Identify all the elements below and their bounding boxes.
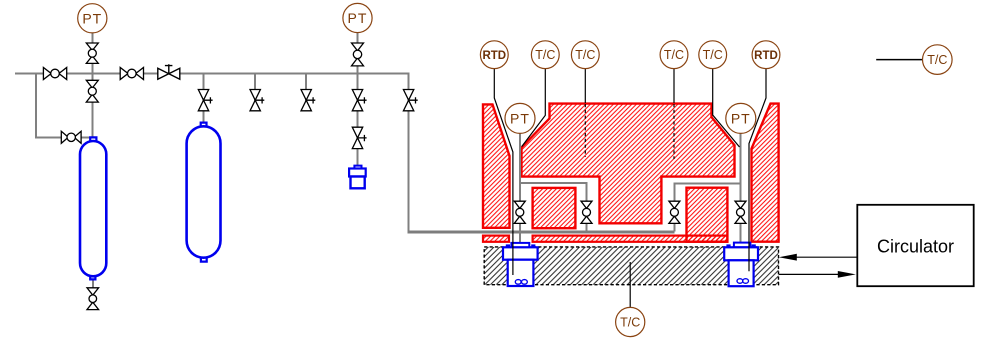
svg-text:T/C: T/C [927, 53, 947, 67]
instrument circle RTD1 [480, 41, 508, 69]
valve V10 on drop 2 [250, 90, 264, 111]
PT1 instrument circle [78, 4, 107, 33]
left fitting neck [511, 243, 529, 248]
vessel valve right cell lower [735, 201, 746, 223]
vessel central mass [522, 104, 735, 224]
vessel left inner block [533, 188, 576, 228]
wire: drop 3 stub [305, 74, 307, 109]
RTD2 probe line [749, 68, 766, 271]
wire: drop 2 stub [254, 74, 256, 109]
svg-text:T/C: T/C [703, 48, 723, 62]
wire: drop 4 to sample container [357, 74, 359, 167]
RTD1 probe line [494, 68, 513, 275]
valve V5 below PT1 above header [86, 43, 98, 63]
heater base block (hatched) [484, 247, 778, 285]
bottom TC probe line [629, 262, 631, 307]
instrument circle PT left cell [505, 103, 535, 133]
cylinder B1 bottom nub [90, 276, 95, 280]
instrument circle TC legend [923, 45, 953, 75]
TC2 probe line [584, 68, 586, 103]
wire: heavy fill line to vessel valves [408, 230, 675, 233]
instrument circle TC2 [571, 41, 599, 69]
instrument circle TC1 [531, 41, 559, 69]
cylinder B2 bottom nub [201, 257, 207, 261]
valve V1 on header [43, 68, 66, 80]
circulator box [857, 205, 973, 286]
svg-text:RTD: RTD [482, 50, 506, 62]
svg-text:Circulator: Circulator [877, 237, 954, 257]
valve V7 cylinder 1 drain [87, 288, 99, 310]
sample container B3 lower body [351, 177, 365, 189]
svg-text:T/C: T/C [620, 316, 640, 330]
wire: PT column at x=92 from PT circle to cylinder 1 [91, 30, 93, 138]
valve V4 on branch line [61, 131, 81, 143]
vessel left bottom strip [483, 236, 509, 242]
wire: main supply header [15, 73, 410, 75]
instrument circle RTD2 [752, 41, 780, 69]
wire: branch from header down and right to PT column [36, 72, 92, 137]
cylinder B1 top nub [90, 137, 96, 141]
valve V9 on drop 1 [198, 90, 212, 111]
wire: PT2 column at x=357.5 above header [357, 31, 359, 73]
valve V13 lower on drop 4 [352, 127, 366, 148]
wire: circulator return arrow (from base) [779, 273, 839, 275]
svg-text:T/C: T/C [575, 48, 595, 62]
wire: stem cylinder 1 bottom to drain valve [92, 279, 94, 289]
left fitting tabs [506, 244, 510, 247]
left fitting seal rings [515, 280, 521, 285]
svg-text:PT: PT [82, 11, 102, 27]
arrowhead into base [779, 254, 797, 261]
instrument circle PT right cell [726, 103, 756, 133]
valve V11 on drop 3 [301, 90, 315, 111]
wire: drop 1 to cylinder 2 [203, 74, 205, 124]
sample container B3 cap [354, 166, 361, 169]
right fitting flange [724, 247, 758, 260]
TC3 probe line [673, 68, 675, 103]
TC1 probe line [522, 68, 546, 146]
valve V14 on drop 5 [403, 90, 417, 111]
valve V6 below header on PT column [86, 80, 98, 102]
vessel right inner block [687, 188, 728, 242]
vessel valve right cell fill [669, 201, 680, 223]
wire: left cell PT drop [519, 134, 521, 246]
sample container B3 upper body [349, 169, 366, 177]
valve V2 on header [120, 68, 143, 80]
wire: right cell branch to fill line [674, 183, 740, 231]
svg-text:T/C: T/C [664, 48, 684, 62]
left fitting flange [503, 247, 538, 259]
cylinder B2 top nub [201, 123, 207, 127]
right fitting neck [734, 243, 751, 248]
svg-text:T/C: T/C [535, 48, 555, 62]
right fitting body [729, 260, 754, 286]
instrument circle TC3 [660, 41, 688, 69]
sample cylinder B1 [80, 141, 106, 276]
vessel valve left cell fill [581, 201, 592, 223]
PT2 instrument circle [343, 3, 372, 32]
valve V12 upper on drop 4 [352, 90, 366, 111]
sample cylinder B2 [187, 126, 221, 257]
valve V8 below PT2 [352, 43, 364, 66]
instrument circle TC bottom [616, 307, 645, 336]
right fitting tabs [726, 244, 730, 247]
svg-text:PT: PT [510, 111, 530, 127]
vessel valve left cell lower [514, 201, 525, 223]
vessel left outer wall (red hatched) [483, 104, 510, 227]
arrowhead into circulator [838, 271, 856, 278]
vessel right outer wall [752, 104, 779, 242]
TC4 probe line [713, 68, 740, 147]
svg-text:RTD: RTD [754, 50, 778, 62]
right fitting seal rings [737, 279, 743, 284]
vessel central bottom strip [533, 236, 728, 242]
wire: right cell PT drop [740, 134, 742, 246]
svg-text:PT: PT [348, 10, 368, 26]
svg-text:PT: PT [731, 111, 751, 127]
wire: circulator supply arrow (to base) [795, 256, 857, 258]
legend TC line [876, 59, 922, 61]
wire: drop 5 feed line down and right to vessel [408, 74, 410, 231]
valve V3 globe valve with stem on header [158, 64, 180, 79]
instrument circle TC4 [699, 41, 727, 69]
wire: left cell branch to fill line [520, 183, 587, 232]
left fitting body [508, 260, 534, 286]
